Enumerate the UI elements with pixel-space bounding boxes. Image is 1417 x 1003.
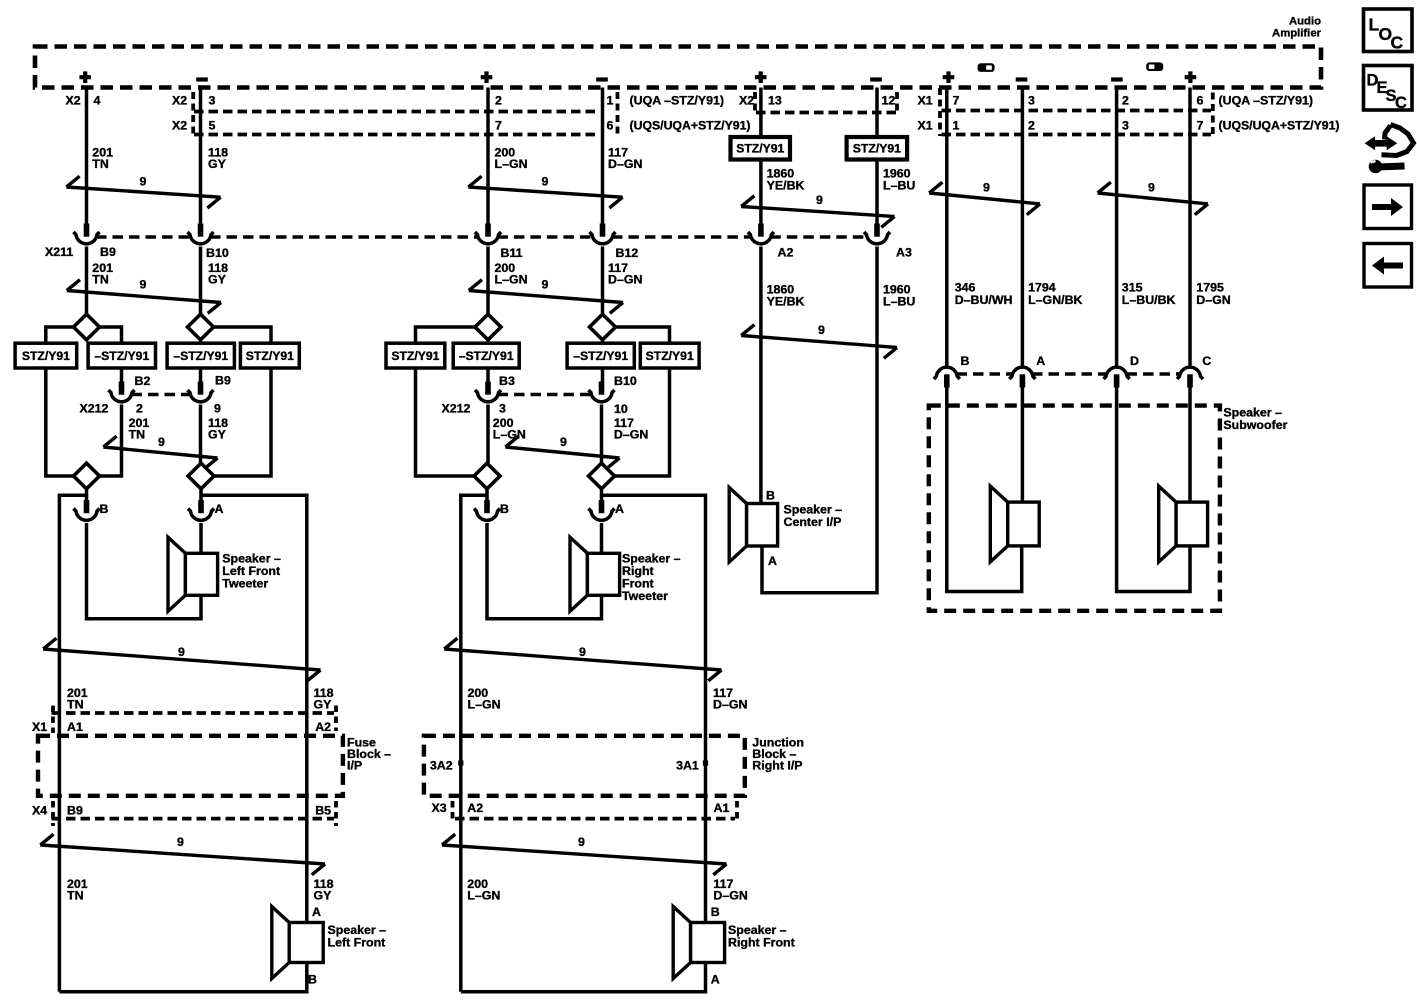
wire 1 branch below X212 (99, 405, 122, 477)
label Speaker - Subwoofer (1223, 406, 1287, 433)
wire left tweeter A to speaker (199, 523, 203, 553)
svg-text:B: B (500, 502, 509, 516)
svg-text:B: B (766, 489, 775, 503)
icon box arrow right (1364, 185, 1412, 229)
svg-text:–STZ/Y91: –STZ/Y91 (459, 349, 514, 363)
svg-text:GY: GY (314, 889, 333, 903)
svg-text:13: 13 (768, 94, 782, 108)
option box STZ/Y91 wire6 (847, 137, 908, 160)
connector pin X212-9 (B9) (188, 382, 214, 402)
wire 4 branch below X212 (600, 405, 604, 465)
svg-text:A2: A2 (315, 720, 331, 734)
wire label 1960 L-BU (mid) (883, 283, 915, 309)
svg-text:L–BU/BK: L–BU/BK (1122, 293, 1176, 307)
svg-text:Right Front: Right Front (728, 936, 795, 950)
svg-text:STZ/Y91: STZ/Y91 (646, 349, 694, 363)
svg-text:A3: A3 (896, 246, 912, 260)
wire label 201 TN (X212) (129, 416, 150, 442)
connector X4 dotted row (52, 817, 335, 821)
svg-text:D–BU/WH: D–BU/WH (955, 293, 1013, 307)
splice diamond wire4 upper (590, 314, 616, 340)
speaker - subwoofer right (1159, 486, 1208, 562)
svg-text:A: A (615, 502, 624, 516)
svg-text:3: 3 (1122, 119, 1129, 133)
svg-text:A: A (711, 973, 720, 987)
svg-text:A: A (215, 502, 224, 516)
svg-text:X2: X2 (172, 119, 187, 133)
svg-text:3: 3 (499, 402, 506, 416)
connector pin B left tweeter (74, 500, 100, 520)
svg-text:Tweeter: Tweeter (222, 577, 268, 591)
svg-text:3A2: 3A2 (430, 759, 453, 773)
splice diamond wire2 upper (188, 314, 214, 340)
bracket X1 left (51, 706, 55, 734)
bracket X1 wires7-10 (938, 88, 942, 136)
svg-text:I/P: I/P (347, 759, 362, 773)
svg-text:C: C (1202, 354, 1211, 368)
wire 6 below option box (875, 160, 879, 225)
wire label 200 L-GN (lower) (468, 686, 501, 712)
svg-text:X4: X4 (32, 804, 47, 818)
svg-text:X1: X1 (32, 720, 47, 734)
wire 6 (1960 L-BU) top segment (875, 88, 879, 139)
svg-text:A: A (1036, 354, 1045, 368)
pin 1 wire7 (953, 119, 960, 133)
twisted pair marker wires5-6 (741, 196, 894, 228)
svg-text:X2: X2 (66, 94, 81, 108)
svg-text:X1: X1 (918, 119, 933, 133)
svg-text:9: 9 (178, 645, 185, 659)
bracket X3 left (451, 801, 455, 823)
svg-text:9: 9 (542, 175, 549, 189)
speaker - subwoofer left (990, 486, 1039, 562)
dotted connector row 1 (left) (194, 110, 596, 114)
wire right tweeter B loop (487, 523, 602, 619)
splice diamond wire2 lower (188, 463, 214, 489)
pin 2 wire3 (495, 94, 502, 108)
wire label 1794 L-GN/BK (1028, 281, 1082, 308)
svg-text:9: 9 (177, 835, 184, 849)
audio amplifier dashed box (35, 47, 1321, 88)
twisted pair marker left column (43, 638, 320, 681)
svg-text:Tweeter: Tweeter (622, 589, 668, 603)
connector pin X211 B10 wire2 (188, 224, 214, 244)
wire label 118 GY (208, 146, 228, 172)
label Fuse Block - I/P (347, 736, 391, 773)
wire bottom loop right front (461, 963, 706, 992)
wire 4 bottom branch (601, 339, 605, 344)
connector X3 dotted row (455, 817, 735, 821)
svg-text:9: 9 (140, 175, 147, 189)
option box STZ/Y91 w3 left (386, 343, 445, 368)
label Speaker - Right Front Tweeter (622, 552, 681, 604)
terminal + (right front +) (481, 71, 493, 83)
svg-text:TN: TN (92, 157, 109, 171)
wire 8 (1794 L-GN/BK) top segment (1021, 88, 1025, 367)
terminal - (subwoofer A -) (1016, 77, 1028, 81)
svg-text:9: 9 (140, 278, 147, 292)
svg-text:STZ/Y91: STZ/Y91 (391, 349, 439, 363)
twisted pair marker wires3-4 (468, 176, 622, 208)
connector label X2 pin 3 (172, 94, 216, 108)
icon box arrow left (1364, 244, 1412, 288)
svg-text:B: B (961, 354, 970, 368)
svg-text:2: 2 (1028, 119, 1035, 133)
bracket X2 wire5 (753, 92, 757, 114)
svg-text:A: A (768, 554, 777, 568)
wire 2 stub to tweeter connector A (199, 495, 203, 500)
bracket X3 right (735, 801, 739, 823)
wire 4 mid branch to connector (601, 368, 605, 382)
svg-text:D–GN: D–GN (1196, 293, 1230, 307)
wire label 118 GY (X212) (208, 416, 228, 442)
option box -STZ/Y91 w1 right (88, 343, 155, 368)
svg-text:B2: B2 (135, 374, 151, 388)
svg-text:–STZ/Y91: –STZ/Y91 (173, 349, 228, 363)
splice diamond wire3 lower (474, 463, 500, 489)
svg-text:D–GN: D–GN (614, 428, 648, 442)
svg-text:GY: GY (208, 157, 227, 171)
wire label 315 L-BU/BK (1122, 281, 1176, 308)
wire label 118 GY (bottom) (314, 877, 334, 903)
svg-text:D–GN: D–GN (713, 889, 747, 903)
svg-text:Audio: Audio (1289, 16, 1321, 28)
wire 3 left branch lower (416, 368, 475, 476)
bracket X1 right (334, 706, 338, 732)
svg-text:(UQS/UQA+STZ/Y91): (UQS/UQA+STZ/Y91) (1219, 119, 1340, 133)
wire 2 mid branch to connector (199, 368, 203, 382)
svg-text:–STZ/Y91: –STZ/Y91 (94, 349, 149, 363)
label Audio Amplifier (1272, 16, 1322, 40)
svg-text:5: 5 (209, 119, 216, 133)
wire 2 segment to splice diamond (199, 247, 203, 317)
speaker - right front (673, 907, 724, 979)
wire left tweeter B loop (87, 523, 202, 619)
svg-text:(UQS/UQA+STZ/Y91): (UQS/UQA+STZ/Y91) (630, 119, 751, 133)
wire 4 junction to right run (602, 488, 706, 923)
svg-text:Subwoofer: Subwoofer (1223, 418, 1287, 432)
svg-text:2: 2 (1122, 94, 1129, 108)
svg-text:9: 9 (214, 402, 221, 416)
option box -STZ/Y91 w4 mid (567, 343, 634, 368)
bracket X4 right (334, 801, 338, 826)
wire label 1860 YE/BK (767, 167, 805, 193)
svg-text:X212: X212 (80, 402, 109, 416)
speaker icon left-filled (978, 63, 995, 72)
option text (UQS/UQA+STZ/Y91) (630, 119, 751, 133)
bracket wire6 (895, 92, 899, 114)
wire 7 (346 D-BU/WH) top segment (945, 88, 949, 367)
svg-text:X1: X1 (918, 94, 933, 108)
terminal + (center +) (755, 71, 767, 83)
svg-text:GY: GY (208, 428, 227, 442)
speaker icon right-filled (1146, 62, 1163, 71)
twisted pair marker right column (444, 638, 721, 681)
label Speaker - Left Front (328, 923, 387, 950)
svg-text:B5: B5 (315, 804, 331, 818)
svg-text:B3: B3 (499, 374, 515, 388)
svg-text:A1: A1 (714, 801, 730, 815)
connector pin X212-3 (B3) (475, 382, 501, 402)
wire 3 branch below X212 (486, 405, 490, 465)
svg-text:1: 1 (607, 94, 614, 108)
wire 1 right branch to connector (120, 368, 124, 382)
wire 2 right branch (213, 327, 272, 343)
pin 7 wire3 (495, 119, 502, 133)
connector label X1 row2 (918, 119, 933, 133)
pin 3 wire9 (1122, 119, 1129, 133)
svg-text:9: 9 (1148, 181, 1155, 195)
connector pin B right tweeter (474, 500, 500, 520)
wire 2 right branch lower (214, 368, 272, 476)
svg-text:4: 4 (94, 94, 101, 108)
svg-text:3: 3 (1028, 94, 1035, 108)
option box STZ/Y91 wire5 (731, 137, 791, 160)
option text (UQS/UQA+STZ/Y91) right (1219, 119, 1340, 133)
svg-text:B9: B9 (215, 374, 231, 388)
dotted connector row 1 (right) (942, 109, 1212, 113)
pin 2 wire9 (1122, 94, 1129, 108)
svg-text:9: 9 (560, 435, 567, 449)
wire 3 stub to tweeter connector B (485, 495, 489, 500)
dotted connector row 2 (left) (194, 133, 596, 137)
splice diamond wire1 lower (74, 463, 100, 489)
svg-text:2: 2 (136, 402, 143, 416)
svg-text:X212: X212 (442, 402, 471, 416)
wire label 117 D-GN (608, 146, 642, 172)
speaker - center I/P (729, 488, 777, 563)
connector X1 dotted row (52, 711, 335, 715)
wire 1 right branch (99, 327, 122, 343)
svg-text:7: 7 (1197, 119, 1204, 133)
wire 4 right branch (615, 327, 670, 343)
wire 5 (1860 YE/BK) top segment (759, 88, 763, 139)
svg-text:B12: B12 (616, 246, 639, 260)
terminal - (subwoofer D -) (1111, 77, 1123, 81)
wire 1 stub to tweeter connector B (85, 495, 89, 500)
svg-text:–STZ/Y91: –STZ/Y91 (573, 349, 628, 363)
wire 1 left branch (46, 327, 75, 343)
svg-text:L–BU: L–BU (883, 295, 915, 309)
svg-text:Center I/P: Center I/P (784, 515, 842, 529)
twisted pair marker wires7-8 (929, 182, 1040, 215)
svg-text:Amplifier: Amplifier (1272, 27, 1322, 39)
twisted pair marker wires5-6 (mid) (741, 325, 897, 359)
pin 3 wire8 (1028, 94, 1035, 108)
wire 7 into subwoofer (947, 388, 1022, 592)
svg-text:B: B (711, 905, 720, 919)
pin 7 wire10 (1197, 119, 1204, 133)
wire label 118 GY (mid) (208, 261, 228, 287)
speaker - left front (272, 907, 323, 979)
pin 6 wire4 (607, 119, 614, 133)
svg-text:L–GN: L–GN (495, 157, 528, 171)
connector pin A subwoofer (1009, 367, 1035, 387)
wire 1 segment to splice diamond (85, 247, 89, 317)
speaker - left front tweeter (168, 537, 218, 611)
svg-text:A: A (312, 905, 321, 919)
bracket wire4 (616, 92, 620, 136)
wire bottom loop left front (59, 963, 306, 992)
wire label 1795 D-GN (1196, 281, 1230, 308)
pin 12 wire6 (882, 94, 896, 108)
terminal 3A2 (430, 759, 464, 773)
wire 2 (118 GY) top segment (199, 88, 203, 225)
wire 4 stub to tweeter connector A (600, 495, 604, 500)
wire 6 long segment (762, 247, 877, 593)
speaker - right front tweeter (570, 537, 620, 611)
svg-text:3A1: 3A1 (676, 759, 699, 773)
connector pin B subwoofer (934, 367, 960, 387)
svg-text:X2: X2 (739, 94, 754, 108)
dotted connector row 2 (right) (942, 133, 1212, 137)
option box STZ/Y91 w1 left (15, 343, 77, 368)
wire label 201 TN (92, 146, 113, 172)
option text (UQA -STZ/Y91) X2 (630, 94, 755, 108)
svg-text:TN: TN (129, 428, 146, 442)
pin 6 wire10 (1197, 94, 1204, 108)
wire label 117 D-GN (mid) (608, 261, 642, 287)
svg-text:TN: TN (67, 889, 84, 903)
svg-text:B: B (308, 973, 317, 987)
option box STZ/Y91 w2 right (240, 343, 299, 368)
connector pin A3 wire6 (864, 224, 890, 244)
wire label 117 D-GN (X212) (614, 416, 648, 442)
icon harness squiggle (1365, 125, 1414, 174)
dotted connector row 1 (center) (756, 111, 898, 115)
svg-text:A2: A2 (467, 801, 483, 815)
twisted pair marker left column lower (40, 834, 325, 875)
wire label 201 TN (bottom) (67, 877, 88, 903)
wire 3 mid branch to connector (486, 368, 490, 382)
label Speaker - Center I/P (784, 503, 843, 530)
wire label 200 L-GN (bottom) (467, 877, 500, 903)
connector label X1 row1 (918, 94, 933, 108)
wire 3 left branch (416, 327, 477, 343)
wire right tweeter A to speaker (600, 523, 604, 553)
wire label 346 D-BU/WH (955, 281, 1013, 308)
svg-text:7: 7 (495, 119, 502, 133)
svg-text:B: B (100, 502, 109, 516)
wire label 117 D-GN (lower) (713, 686, 747, 712)
svg-text:TN: TN (67, 698, 84, 712)
connector pin X211 B12 wire4 (590, 224, 616, 244)
fuse block dashed box (38, 736, 343, 796)
wire label 1960 L-BU (883, 167, 915, 193)
pin 13 wire5 (768, 94, 782, 108)
svg-text:9: 9 (578, 835, 585, 849)
svg-text:L–GN: L–GN (468, 698, 501, 712)
terminal - (right front -) (596, 77, 608, 81)
terminal 3A1 (676, 759, 708, 773)
wire 9 into subwoofer (1117, 388, 1190, 592)
svg-text:2: 2 (495, 94, 502, 108)
wire 5 below option box (759, 160, 763, 225)
wire 5 long segment to center speaker (759, 247, 763, 504)
splice diamond wire3 upper (475, 314, 501, 340)
connector label X2 pin 4 (66, 94, 101, 108)
svg-text:6: 6 (1197, 94, 1204, 108)
pin 2 wire8 (1028, 119, 1035, 133)
terminal - (center -) (870, 77, 882, 81)
svg-text:A2: A2 (778, 246, 794, 260)
svg-text:B10: B10 (206, 246, 229, 260)
svg-text:1: 1 (953, 119, 960, 133)
wire 4 (117 D-GN) top segment (601, 88, 605, 225)
twisted pair marker wires1-2 (mid) (67, 280, 221, 314)
wire 10 into subwoofer (1188, 388, 1192, 503)
bracket X4 left (51, 801, 55, 826)
speaker subwoofer dashed box (929, 406, 1220, 611)
bracket X2 wire2 (191, 92, 195, 136)
svg-text:D–GN: D–GN (608, 157, 642, 171)
svg-text:D–GN: D–GN (713, 698, 747, 712)
wire label 200 L-GN (X212) (493, 416, 526, 442)
svg-text:9: 9 (158, 435, 165, 449)
svg-text:YE/BK: YE/BK (767, 179, 805, 193)
bracket right wire10 (1211, 93, 1215, 137)
svg-text:STZ/Y91: STZ/Y91 (736, 141, 784, 155)
svg-text:STZ/Y91: STZ/Y91 (853, 141, 901, 155)
terminal + (subwoofer C +) (1185, 71, 1197, 83)
connector label X2 pin 5 (172, 119, 216, 133)
svg-text:A1: A1 (67, 720, 83, 734)
wire 1 (201 TN) top segment (85, 88, 89, 225)
svg-text:9: 9 (983, 181, 990, 195)
twisted pair marker right column lower (442, 834, 727, 875)
wire 3 segment to splice diamond (486, 247, 490, 317)
twisted pair marker wires1-2 (66, 176, 220, 208)
svg-text:L–BU: L–BU (883, 179, 915, 193)
label Speaker - Left Front Tweeter (222, 552, 281, 591)
svg-text:X2: X2 (172, 94, 187, 108)
wire 4 right branch lower (614, 368, 670, 476)
connector pin A right tweeter (589, 500, 615, 520)
wire label 201 TN (mid) (92, 261, 113, 287)
svg-text:STZ/Y91: STZ/Y91 (246, 349, 294, 363)
option text (UQA -STZ/Y91) right (1219, 94, 1314, 108)
svg-text:X3: X3 (432, 801, 447, 815)
connector dashed line subwoofer (957, 372, 1181, 376)
connector pin X212-10 (B10) (589, 382, 615, 402)
pin 7 wire7 (953, 94, 960, 108)
svg-text:D–GN: D–GN (608, 273, 642, 287)
connector pin X211 B11 wire3 (475, 224, 501, 244)
wire 4 segment to splice diamond (601, 247, 605, 317)
twisted pair marker branches3-4 (505, 436, 619, 469)
connector pin D subwoofer (1104, 367, 1130, 387)
wire 2 bottom branch (199, 339, 203, 344)
terminal + (left front +) (79, 71, 91, 83)
connector pin X211 B9 wire1 (74, 224, 100, 244)
svg-text:L–GN/BK: L–GN/BK (1028, 293, 1082, 307)
svg-text:9: 9 (579, 645, 586, 659)
wire label 1860 YE/BK (mid) (767, 283, 805, 309)
svg-text:B9: B9 (67, 804, 83, 818)
connector X212 dashed line (right) (498, 393, 591, 397)
svg-text:9: 9 (816, 193, 823, 207)
wire 10 (1795 D-GN) top segment (1188, 88, 1192, 367)
twisted pair marker wires9-10 (1098, 182, 1208, 215)
wire 2 junction to right run (201, 488, 307, 923)
svg-text:3: 3 (209, 94, 216, 108)
svg-text:L–GN: L–GN (467, 889, 500, 903)
pin 1 wire4 (607, 94, 614, 108)
wire 1 left branch lower (46, 368, 75, 476)
svg-text:L–GN: L–GN (495, 273, 528, 287)
svg-text:Left Front: Left Front (328, 936, 386, 950)
terminal + (subwoofer B +) (943, 71, 955, 83)
